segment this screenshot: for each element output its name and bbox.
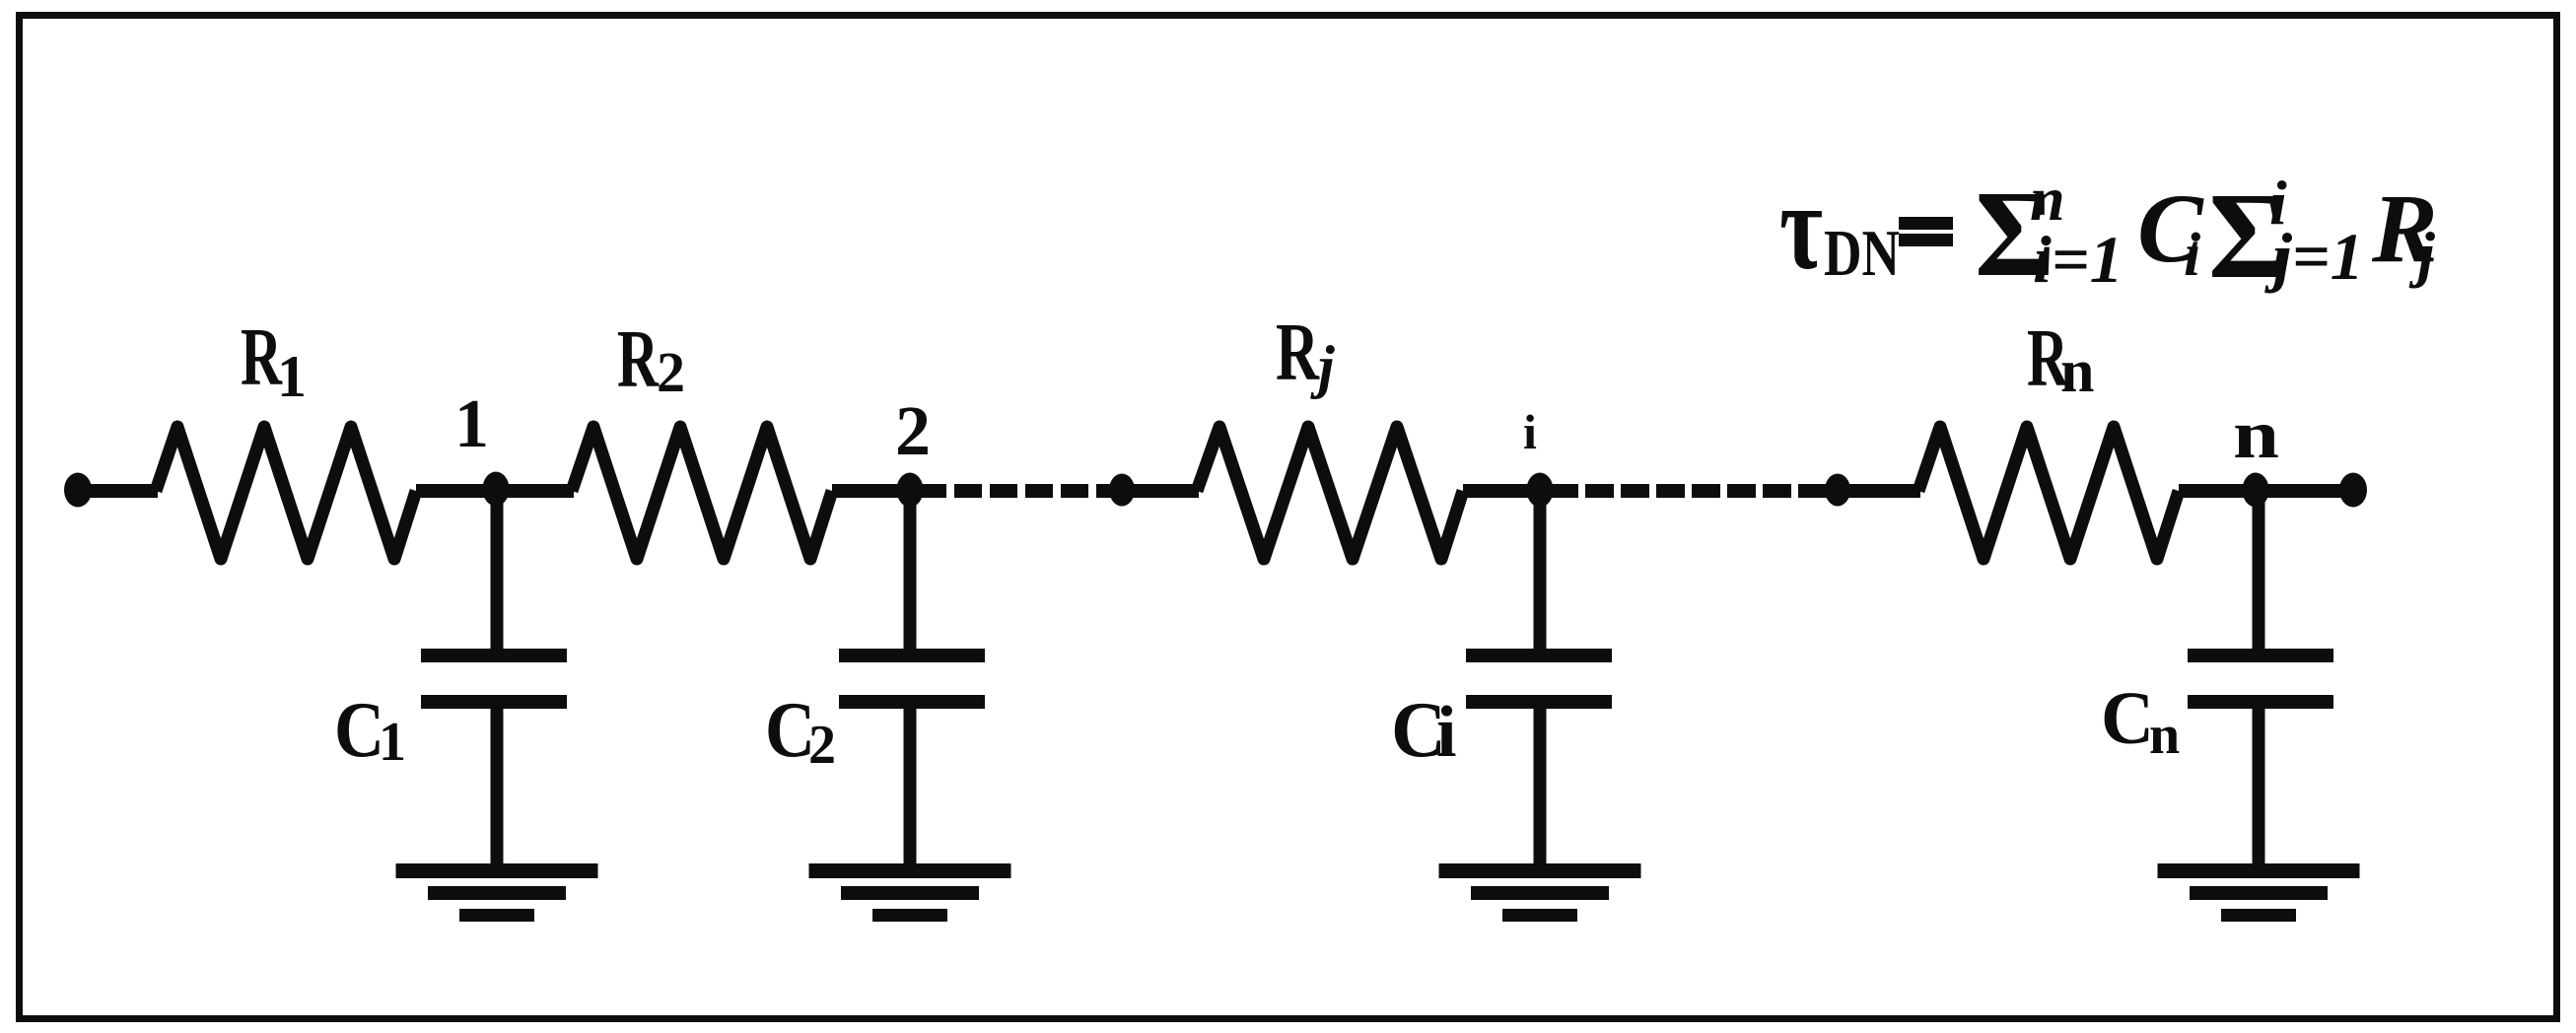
input terminal node [64,473,92,508]
resistor Rn [1918,427,2179,559]
label Ci [1391,687,1457,774]
label R1 [241,311,307,409]
junction dot B [1825,474,1850,507]
label C2 [765,687,836,776]
label Rj [1276,307,1335,399]
svg-text:1: 1 [379,712,406,773]
svg-text:DN: DN [1824,217,1900,290]
svg-text:i: i [1436,692,1457,773]
label R2 [617,313,685,405]
svg-text:2: 2 [808,715,836,776]
resistor R1 [156,427,416,559]
svg-text:n: n [2060,338,2094,405]
wire R1 to R2 [416,484,574,498]
svg-text:1: 1 [277,344,307,409]
svg-text:R: R [617,313,660,405]
capacitor C1 [421,491,567,870]
output terminal node [2339,473,2367,508]
svg-text:i: i [1523,404,1537,459]
wire junction B to Rn [1838,484,1920,498]
ground for Cn [2158,863,2360,922]
capacitor Ci [1466,491,1612,870]
formula tau_DN = sum_{i=1}^{n} C_i sum_{j=1}^{i} R_j [1779,159,2438,305]
svg-text:i: i [2184,222,2200,289]
label C1 [334,687,406,774]
node i [1527,473,1554,508]
dashed wire node 2 to junction A [919,484,1122,498]
label Cn [2101,677,2180,766]
ground for C2 [809,863,1011,922]
svg-text:n: n [2149,705,2180,766]
ground for C1 [396,863,598,922]
svg-text:i=1: i=1 [2033,222,2123,297]
node 1 [483,472,510,507]
capacitor Cn [2188,491,2333,870]
svg-text:n: n [2233,397,2279,473]
wire R2 to node 2 [832,484,917,498]
svg-text:C: C [2101,677,2154,760]
capacitor C2 [839,491,985,870]
svg-text:R: R [1276,307,1320,398]
label node i [1523,404,1537,459]
svg-text:1: 1 [454,386,489,462]
resistor R2 [572,427,832,559]
svg-text:j=1: j=1 [2264,219,2364,294]
wire Rj to node i [1463,484,1542,498]
node 2 [897,473,924,508]
label node 1 [454,386,489,462]
label node n [2233,397,2279,473]
resistor Rj [1197,427,1463,559]
wire input to R1 [78,484,158,498]
wire junction A to Rj [1122,484,1199,498]
svg-text:C: C [334,687,384,774]
ground for Ci [1439,863,1641,922]
junction dot A [1109,474,1135,507]
svg-text:2: 2 [895,391,931,470]
svg-text:τ: τ [1779,159,1823,296]
dashed wire node i to junction B [1550,484,1838,498]
node n [2243,473,2269,508]
wire Rn to output through node n [2179,484,2353,498]
label Rn [2027,312,2094,405]
svg-text:2: 2 [657,340,685,404]
label node 2 [895,391,931,470]
